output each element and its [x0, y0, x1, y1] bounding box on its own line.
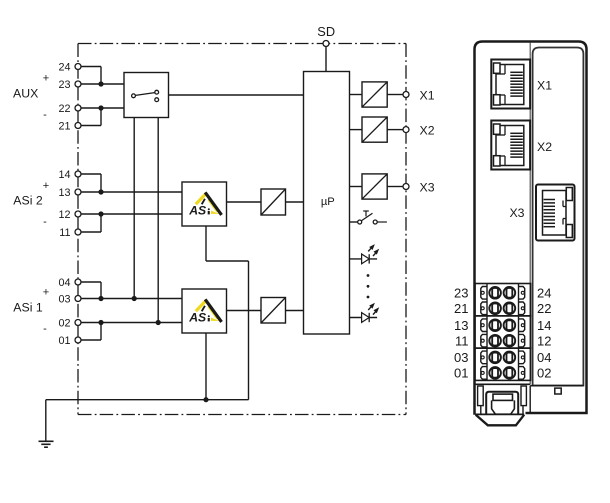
- svg-text:22: 22: [58, 103, 70, 115]
- svg-text:01: 01: [454, 366, 468, 381]
- svg-text:22: 22: [537, 301, 551, 316]
- svg-text:11: 11: [455, 333, 469, 348]
- svg-text:-: -: [43, 216, 47, 228]
- svg-text:X3: X3: [509, 206, 524, 220]
- svg-text:02: 02: [537, 366, 551, 381]
- svg-text:AS: AS: [188, 204, 206, 218]
- svg-text:03: 03: [454, 350, 468, 365]
- svg-text:X2: X2: [537, 140, 552, 154]
- svg-text:AS: AS: [188, 311, 206, 325]
- svg-text:01: 01: [58, 335, 70, 347]
- svg-text:X3: X3: [420, 180, 435, 194]
- svg-text:04: 04: [58, 277, 70, 289]
- svg-text:21: 21: [454, 301, 468, 316]
- svg-text:X1: X1: [537, 79, 552, 93]
- svg-text:X1: X1: [420, 88, 435, 102]
- svg-text:04: 04: [537, 350, 551, 365]
- svg-text:24: 24: [58, 61, 70, 73]
- svg-text:11: 11: [59, 227, 70, 239]
- svg-text:21: 21: [58, 120, 70, 132]
- svg-text:12: 12: [58, 209, 70, 221]
- svg-text:SD: SD: [317, 24, 335, 39]
- svg-text:23: 23: [454, 286, 468, 301]
- svg-text:X2: X2: [420, 124, 435, 138]
- svg-text:14: 14: [537, 318, 551, 333]
- svg-text:12: 12: [537, 333, 551, 348]
- svg-text:13: 13: [454, 318, 468, 333]
- svg-text:03: 03: [58, 293, 70, 305]
- svg-text:+: +: [43, 73, 49, 85]
- svg-text:ASi 1: ASi 1: [13, 301, 43, 315]
- svg-text:ASi 2: ASi 2: [13, 193, 43, 207]
- svg-text:24: 24: [537, 286, 551, 301]
- svg-text:13: 13: [58, 187, 70, 199]
- svg-text:µP: µP: [321, 196, 335, 208]
- svg-text:+: +: [43, 287, 49, 299]
- svg-text:+: +: [43, 180, 49, 192]
- svg-text:02: 02: [58, 317, 70, 329]
- svg-text:14: 14: [58, 169, 70, 181]
- svg-text:AUX: AUX: [13, 87, 38, 101]
- svg-text:-: -: [43, 109, 47, 121]
- svg-text:-: -: [43, 323, 47, 335]
- svg-text:23: 23: [58, 79, 70, 91]
